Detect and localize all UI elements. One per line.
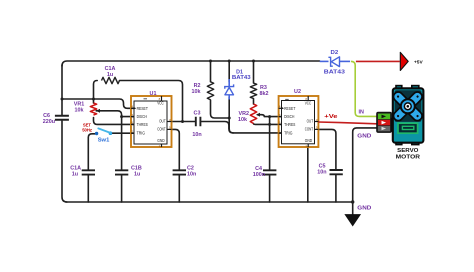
svg-text:CONT: CONT <box>305 127 314 132</box>
svg-text:C4: C4 <box>255 166 262 172</box>
svg-text:RESET: RESET <box>137 106 148 111</box>
svg-text:VCC: VCC <box>157 101 164 106</box>
svg-text:1u: 1u <box>107 72 113 78</box>
wire D1 top lead <box>228 61 230 82</box>
wire green signal from +5V node down to servo IN <box>351 61 377 116</box>
wire R3 to VR2 <box>253 99 255 105</box>
wire U1 OUT to C3 <box>172 121 195 123</box>
svg-text:DISCH: DISCH <box>284 114 294 119</box>
diode D1 BAT43 <box>225 69 251 99</box>
wire left rail lower <box>62 121 67 202</box>
svg-text:GND: GND <box>357 206 371 212</box>
svg-text:GND: GND <box>305 138 313 143</box>
wire C1A bottom to rail <box>87 175 89 202</box>
svg-text:TRIG: TRIG <box>137 131 146 136</box>
svg-text:1u: 1u <box>72 172 78 178</box>
+5V supply arrow <box>400 52 423 70</box>
svg-text:1u: 1u <box>134 172 140 178</box>
wire C4 to ground rail <box>269 175 271 202</box>
wire Sw1 right to U1 TRIG <box>112 132 134 134</box>
op-amp U2 (555 timer) <box>279 89 319 148</box>
capacitor C1A (bottom) <box>70 166 95 178</box>
svg-text:+5V: +5V <box>414 60 423 66</box>
capacitor C4 <box>253 166 277 178</box>
wire D1 bottom lead joining TRIG line <box>229 97 233 133</box>
wire THRES node down to C4 <box>269 117 271 170</box>
capacitor C3 <box>192 111 201 139</box>
wire C2 bottom to rail <box>178 175 180 202</box>
wire +V branch to VR1/RESET <box>62 99 134 108</box>
svg-text:U2: U2 <box>294 89 301 95</box>
capacitor C1A (feedback, drawn as zigzag) <box>102 66 120 84</box>
wire VR2 wiper to U2 DISCH <box>258 115 282 117</box>
capacitor C6 <box>43 113 69 125</box>
svg-text:THRES: THRES <box>137 122 148 127</box>
svg-text:10k: 10k <box>192 89 201 95</box>
svg-text:10k: 10k <box>75 108 84 114</box>
svg-text:10k: 10k <box>238 117 247 123</box>
svg-text:10n: 10n <box>192 132 201 138</box>
ground symbol <box>345 206 371 226</box>
svg-text:DISCH: DISCH <box>137 114 147 119</box>
svg-text:50Hz: 50Hz <box>82 128 92 133</box>
switch Sw1 <box>95 128 112 143</box>
wire U2 CONT to C5 <box>318 129 336 169</box>
svg-text:GND: GND <box>157 138 165 143</box>
wire R2 top lead <box>210 61 212 82</box>
svg-text:100n: 100n <box>253 172 265 178</box>
wire C1A left lead down through VR1 top <box>94 81 98 104</box>
wire C5 bottom to rail <box>335 175 337 202</box>
svg-text:10n: 10n <box>187 172 196 178</box>
op-amp U1 (555 timer) <box>131 91 172 148</box>
wire VR1 wiper to DISCH and down to C1B <box>96 111 121 170</box>
svg-text:C3: C3 <box>194 111 201 117</box>
resistor R3 <box>250 83 268 98</box>
svg-text:10n: 10n <box>317 170 326 176</box>
svg-text:SERVO: SERVO <box>397 148 419 154</box>
wire red +5V feed <box>356 60 400 62</box>
wire C1B bottom to rail <box>121 175 123 202</box>
svg-text:THRES: THRES <box>284 122 295 127</box>
svg-text:RESET: RESET <box>284 106 295 111</box>
wire C1A right lead to OUT node <box>120 81 183 122</box>
servo motor <box>382 81 433 161</box>
svg-text:+Ve: +Ve <box>324 114 337 120</box>
wire bottom ground rail <box>66 201 353 203</box>
svg-text:TRIG: TRIG <box>284 131 293 136</box>
wire VR2 bottom to U2 THRES <box>254 123 282 126</box>
wire servo GND pin to ground <box>353 128 377 215</box>
wire U1 CONT to C2 <box>172 129 180 169</box>
wire top rail <box>62 61 320 66</box>
wire R3 top lead <box>253 61 255 83</box>
svg-text:MOTOR: MOTOR <box>396 154 420 160</box>
capacitor C1B <box>115 166 142 178</box>
svg-text:8k2: 8k2 <box>260 91 269 97</box>
svg-text:U1: U1 <box>150 91 157 97</box>
svg-text:220u: 220u <box>43 119 55 125</box>
wire red U2 OUT to servo connector <box>318 122 376 124</box>
diode D2 BAT43 <box>320 50 350 75</box>
svg-text:BAT43: BAT43 <box>324 69 345 75</box>
wire Sw1 left down to C1A <box>88 134 95 170</box>
resistor R2 <box>192 82 214 100</box>
potentiometer VR2 <box>238 104 260 123</box>
capacitor C2 <box>173 166 197 178</box>
svg-text:BAT43: BAT43 <box>232 75 251 81</box>
wire R2 bottom lead to D1 node <box>211 100 230 118</box>
wire C3 right to U2 TRIG <box>201 122 281 133</box>
svg-text:IN: IN <box>359 109 364 115</box>
svg-text:VCC: VCC <box>305 101 312 106</box>
svg-text:D2: D2 <box>331 50 339 56</box>
potentiometer VR1 <box>74 102 100 116</box>
wire DISCH branch <box>122 116 134 118</box>
svg-text:CONT: CONT <box>157 127 166 132</box>
svg-text:Sw1: Sw1 <box>98 138 110 144</box>
svg-text:GND: GND <box>357 134 371 140</box>
servo connector 3-pin <box>377 112 392 132</box>
wire left rail upper <box>61 65 63 115</box>
wire U2 GND to rail <box>307 147 309 202</box>
label SET 50Hz <box>82 123 92 133</box>
svg-text:OUT: OUT <box>159 118 166 123</box>
wire VR1 bottom to U1 THRES <box>94 118 135 125</box>
svg-text:OUT: OUT <box>307 118 314 123</box>
capacitor C5 <box>317 164 343 176</box>
